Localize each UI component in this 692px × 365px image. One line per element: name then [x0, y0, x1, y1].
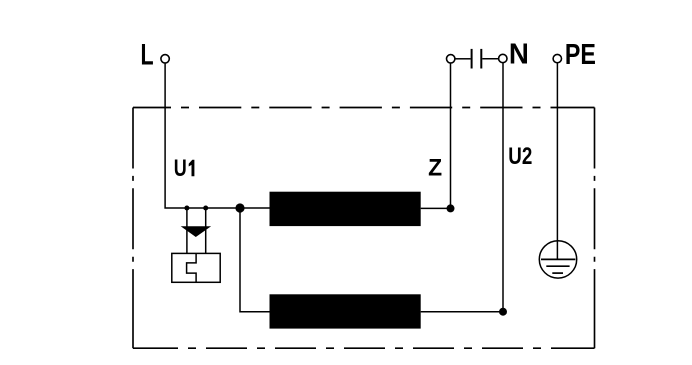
wire: PE terminal down to earth symbol — [556, 63, 558, 241]
label U1 (digit 1) — [189, 160, 195, 177]
junction dot (main node to auxiliary winding) — [235, 203, 244, 212]
terminal N — [499, 54, 507, 62]
auxiliary winding (lower black bar) — [270, 294, 421, 328]
terminal L — [161, 55, 169, 63]
svg-text:N: N — [509, 38, 529, 70]
wire: N terminal down to auxiliary winding (U2) — [502, 63, 504, 312]
wire: L terminal down and right to main winding — [165, 63, 269, 208]
junction dot (node Z) — [447, 204, 455, 212]
capacitor C plate right — [480, 49, 482, 69]
protective earth bar 3 — [552, 272, 563, 274]
wire: capacitor right lead — [482, 58, 498, 60]
motor enclosure dash-dot outline (bottom edge) — [133, 347, 595, 349]
thermal protector TOP box — [172, 253, 220, 282]
svg-text:U: U — [174, 155, 187, 182]
motor enclosure dash-dot outline (top edge) — [133, 107, 595, 109]
wire: capacitor left lead — [455, 58, 471, 60]
wire: main winding to Z node — [421, 207, 451, 209]
motor enclosure dash-dot outline (left edge) — [132, 108, 134, 349]
wire: node down and right to auxiliary winding — [240, 208, 270, 312]
junction dot (auxiliary winding / N wire) — [499, 308, 507, 316]
svg-text:Z: Z — [428, 155, 442, 182]
junction dot (TOP branch right) — [203, 206, 208, 211]
junction dot (TOP branch left) — [184, 206, 189, 211]
protective earth bar 2 — [546, 265, 569, 267]
thermal protector contact divider — [187, 253, 197, 282]
svg-text:L: L — [141, 39, 154, 72]
wire: auxiliary winding to N wire — [421, 311, 503, 313]
main winding (upper black bar) — [270, 192, 421, 226]
protective earth symbol circle — [539, 241, 576, 278]
wire: node Z up to capacitor terminal — [450, 63, 452, 208]
wire: right lead into thermal protector — [205, 208, 207, 253]
svg-text:U2: U2 — [508, 143, 532, 170]
svg-text:PE: PE — [565, 39, 596, 71]
protective earth bar 1 — [541, 258, 575, 260]
capacitor C plate left — [471, 49, 473, 69]
protective earth stem — [556, 241, 558, 259]
terminal PE — [553, 54, 561, 62]
wire: left lead into thermal protector — [186, 208, 188, 253]
thermal protector trip triangle — [181, 226, 211, 237]
capacitor terminal (left) — [447, 55, 455, 63]
motor enclosure dash-dot outline (right edge) — [594, 108, 596, 349]
